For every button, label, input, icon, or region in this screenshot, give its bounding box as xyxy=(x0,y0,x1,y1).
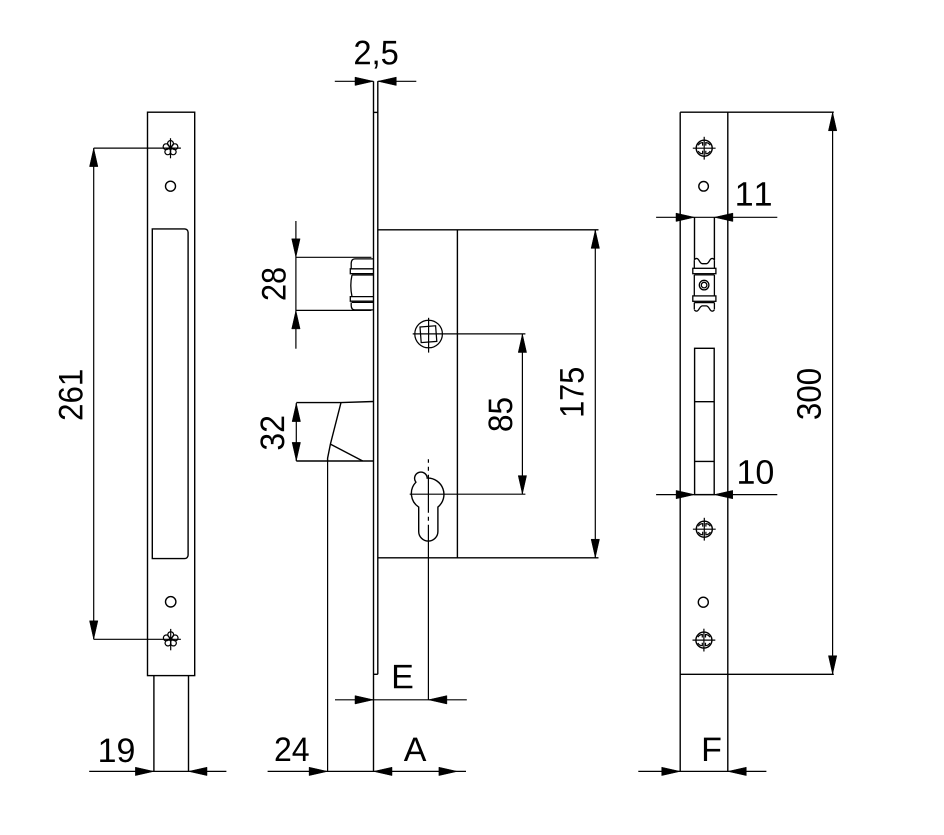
left view: lock case side profile xyxy=(148,112,195,771)
dimension F xyxy=(638,738,766,776)
middle view: cross-section xyxy=(374,81,599,771)
dimension 28 xyxy=(262,221,372,349)
euro cylinder hole xyxy=(410,459,526,700)
screw symbol right view at 704.2,148.2 xyxy=(693,137,716,160)
hole circle right view top xyxy=(699,182,709,192)
cylinder centerline xyxy=(427,459,429,545)
dimensions 24 and A xyxy=(268,737,466,775)
extension line from deadbolt xyxy=(327,461,329,771)
lock body outline xyxy=(378,229,599,231)
deadbolt slot front view xyxy=(695,348,715,494)
dimension E xyxy=(335,665,467,704)
left view outer plate xyxy=(148,112,195,675)
screw symbol right view at 704.3,529.2 xyxy=(693,518,716,541)
dimension 175 xyxy=(560,230,599,558)
dimension 261 xyxy=(59,148,181,639)
dimension 32 xyxy=(260,403,300,461)
right view: faceplate front xyxy=(680,112,834,771)
screw symbol bottom left view xyxy=(163,632,178,646)
hole circle right view bottom xyxy=(698,597,708,607)
hole circle bottom left view xyxy=(166,597,176,607)
faceplate edge lines xyxy=(373,81,375,771)
extension line lock body right edge xyxy=(456,558,458,772)
dimension 2,5 xyxy=(335,41,417,86)
dimension 19 xyxy=(89,738,226,775)
latch slot lines xyxy=(694,217,696,260)
left view lower strip xyxy=(153,676,155,772)
latch bolt side view xyxy=(350,259,373,310)
roller latch front view xyxy=(693,258,716,311)
dimension 85 xyxy=(488,334,526,494)
screw symbol right view at 703.9,640.1 xyxy=(693,629,716,652)
latch rivet xyxy=(699,280,709,290)
dimension 300 xyxy=(797,112,837,674)
dimension 10 xyxy=(656,460,777,499)
screw symbol top left view xyxy=(163,141,178,155)
deadbolt side view xyxy=(296,402,373,772)
left view inner case rectangle xyxy=(152,229,188,559)
dimension 11 xyxy=(656,182,777,221)
spindle follower square hub xyxy=(413,318,526,353)
hole circle top left view xyxy=(166,181,176,191)
